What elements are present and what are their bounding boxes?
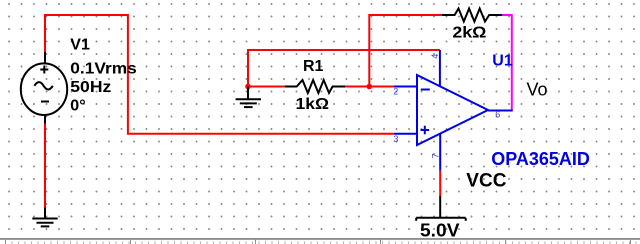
svg-text:2kΩ: 2kΩ bbox=[452, 25, 486, 42]
wire R1 right lead to inverting input bbox=[345, 86, 394, 88]
resistor R1 1kOhm bbox=[285, 80, 345, 93]
pin 2 lead bbox=[394, 86, 417, 88]
sheet border ruler line bbox=[0, 238, 640, 240]
wire op-amp pin 7 to VCC symbol bbox=[439, 171, 441, 196]
wire from V1 top to op-amp non-inverting input bbox=[45, 15, 394, 134]
pin 7 lead bbox=[439, 134, 441, 171]
svg-text:2: 2 bbox=[393, 86, 398, 96]
wire ground junction to R1 left lead bbox=[248, 86, 285, 88]
svg-text:R1: R1 bbox=[303, 58, 324, 75]
VCC power symbol bbox=[416, 196, 466, 221]
pin 6 output lead bbox=[488, 110, 513, 112]
svg-text:7: 7 bbox=[430, 153, 440, 158]
svg-text:1kΩ: 1kΩ bbox=[296, 96, 330, 113]
svg-text:VCC: VCC bbox=[466, 170, 506, 191]
node junction at ground/R1 bbox=[245, 84, 251, 90]
svg-text:0.1Vrms: 0.1Vrms bbox=[70, 60, 137, 77]
voltage source V1 bbox=[21, 52, 67, 124]
resistor R2 2kOhm (feedback) bbox=[442, 9, 502, 22]
svg-text:4: 4 bbox=[430, 54, 440, 59]
node junction at inverting input bbox=[367, 84, 373, 90]
ground under V1 bbox=[32, 208, 57, 227]
svg-text:6: 6 bbox=[495, 110, 500, 120]
svg-text:50Hz: 50Hz bbox=[70, 79, 111, 96]
pin 3 lead bbox=[394, 133, 417, 135]
pin 4 lead bbox=[439, 50, 441, 86]
svg-text:U1: U1 bbox=[492, 52, 513, 69]
wire ground junction up and right to op-amp pin 4 bbox=[248, 50, 440, 87]
wire magenta: 2k resistor right end down to op-amp output bbox=[502, 15, 512, 111]
wire from V1 bottom to ground bbox=[44, 124, 46, 208]
wire feedback: inverting node up and right to 2k resistor bbox=[369, 15, 442, 87]
svg-text:3: 3 bbox=[393, 134, 398, 144]
op-amp U1 triangle bbox=[417, 75, 488, 145]
op-amp plus symbol bbox=[421, 126, 430, 135]
svg-text:5.0V: 5.0V bbox=[420, 220, 460, 240]
ground at inverting network bbox=[236, 87, 261, 108]
svg-text:0°: 0° bbox=[70, 97, 85, 114]
ruler ticks bbox=[6, 240, 631, 244]
svg-text:Vo: Vo bbox=[527, 80, 548, 100]
op-amp minus symbol bbox=[421, 89, 430, 91]
svg-text:OPA365AID: OPA365AID bbox=[491, 149, 590, 169]
svg-text:V1: V1 bbox=[70, 37, 90, 54]
